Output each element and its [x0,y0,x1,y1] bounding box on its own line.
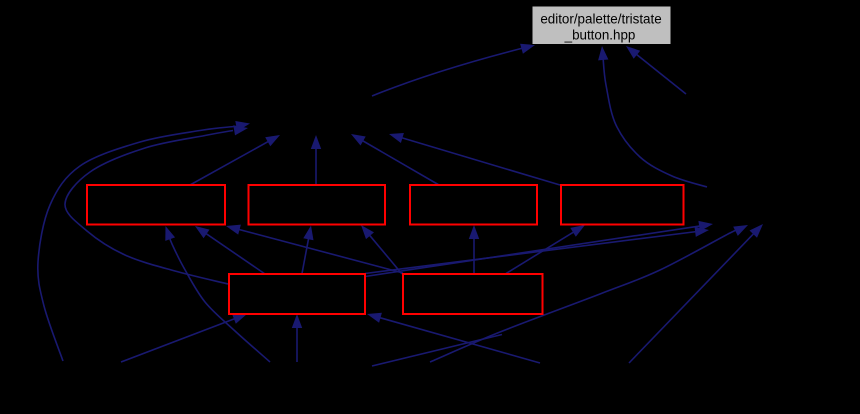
svg-text:editor/palette/tristate: editor/palette/tristate [540,12,661,27]
svg-text:_button.hpp: _button.hpp [564,28,636,43]
